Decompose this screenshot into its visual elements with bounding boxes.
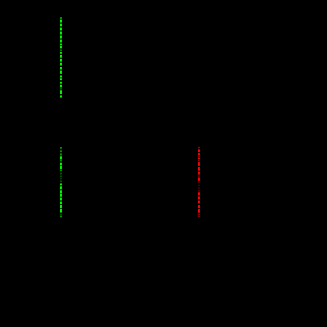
green dashed vertical line 1 (upper left) — [60, 17, 62, 97]
red dashed vertical line (lower middle-right) — [198, 147, 200, 217]
green dashed vertical line 2 (lower left) — [60, 147, 62, 217]
